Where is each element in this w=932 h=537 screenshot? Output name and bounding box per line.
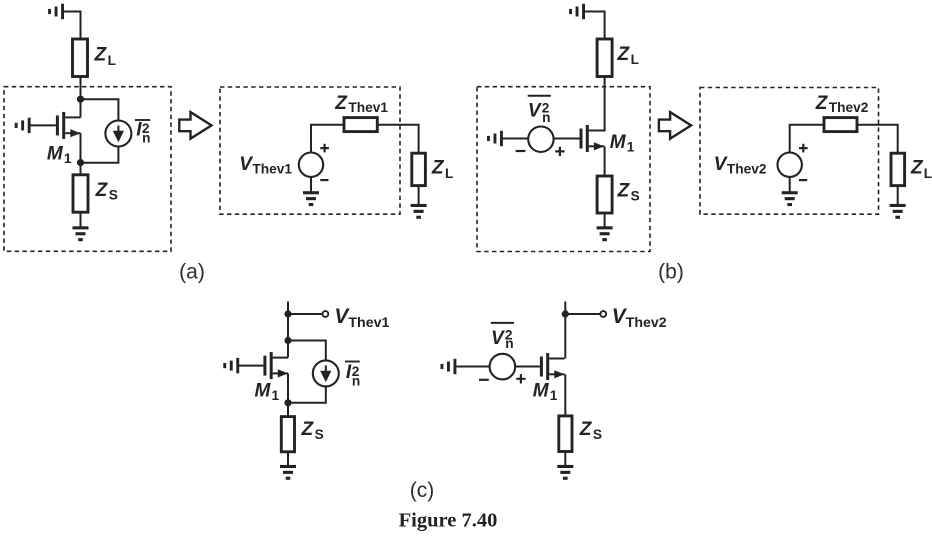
label In2 (a) — [135, 119, 150, 121]
supply symbol (b) — [569, 4, 585, 19]
svg-text:Z: Z — [579, 419, 593, 440]
wire ZL to drain — [80, 77, 82, 118]
ac ground at gate (a) — [15, 118, 31, 133]
wire source top to ZThev1 — [311, 125, 344, 153]
ground VThev2 — [782, 191, 798, 206]
wire supply to ZL (b) — [585, 12, 605, 40]
svg-text:M: M — [47, 143, 64, 164]
svg-text:S: S — [315, 427, 324, 442]
wire supply to ZL — [64, 12, 81, 40]
wire ZL to ground thev2 — [897, 186, 899, 205]
node output (c2) — [562, 310, 569, 317]
wire drain stub down (c1) — [287, 302, 289, 358]
wire acgnd to noise source (c2) — [456, 366, 490, 368]
plus sign VThev1 — [320, 144, 329, 153]
minus sign (c2) — [479, 379, 489, 381]
wire ZS to ground (b) — [604, 213, 606, 227]
label In2 (c1) — [345, 361, 360, 363]
wire gate (a) — [30, 124, 56, 126]
dashed box thev2 — [700, 88, 879, 215]
node noise tap (c1) — [284, 337, 291, 344]
wire ZThev2 to ZL — [857, 125, 898, 154]
wire node to noise source (c1) — [288, 341, 326, 362]
ground ZL thev2 — [890, 204, 906, 219]
svg-text:n: n — [352, 373, 360, 388]
impedance ZL thev1 — [412, 153, 426, 185]
impedance ZThev1 — [344, 118, 377, 132]
wire noise source to gate (c2) — [515, 366, 540, 368]
svg-text:S: S — [593, 427, 602, 442]
svg-text:V: V — [528, 101, 542, 122]
svg-text:V: V — [239, 154, 253, 175]
svg-text:1: 1 — [550, 388, 558, 403]
svg-text:n: n — [542, 110, 550, 125]
supply symbol (a) — [48, 4, 64, 19]
svg-text:Thev1: Thev1 — [348, 315, 389, 331]
ground (b) — [597, 226, 613, 241]
label Vn2 (c2) — [491, 322, 514, 324]
svg-text:M: M — [610, 132, 627, 153]
svg-text:V: V — [491, 328, 505, 349]
impedance ZThev2 — [824, 118, 857, 132]
wire source to node (a) — [80, 133, 82, 175]
svg-text:Z: Z — [815, 93, 829, 114]
svg-text:Thev2: Thev2 — [626, 315, 667, 331]
wire source down to ZS (b) — [604, 146, 606, 176]
ac ground at gate (b) — [487, 131, 503, 146]
svg-text:Z: Z — [301, 419, 315, 440]
svg-text:V: V — [714, 154, 728, 175]
minus sign (b) — [516, 150, 526, 152]
voltage source VThev1 — [299, 153, 323, 177]
ground ZL thev1 — [411, 204, 427, 219]
svg-text:Z: Z — [334, 93, 348, 114]
wire source top to ZThev2 — [790, 125, 824, 153]
node source (c1) — [284, 399, 291, 406]
dashed box thev1 — [220, 87, 400, 214]
impedance ZS (c2) — [559, 416, 572, 452]
open terminal (c2) — [600, 311, 606, 317]
svg-text:1: 1 — [272, 388, 280, 403]
impedance ZS (c1) — [281, 417, 294, 452]
svg-text:(a): (a) — [179, 261, 205, 284]
minus sign VThev2 — [799, 179, 807, 181]
svg-text:Z: Z — [431, 158, 445, 179]
transistor M1 (c1) — [263, 352, 288, 379]
svg-text:S: S — [631, 188, 640, 203]
transistor M1 (b) — [580, 125, 605, 152]
label Vn2 (b) — [528, 95, 551, 97]
node drain (a) — [77, 96, 84, 103]
svg-text:Z: Z — [617, 44, 631, 65]
wire ZS to ground — [80, 212, 82, 226]
minus sign VThev1 — [320, 179, 328, 181]
impedance ZS (b) — [597, 176, 612, 213]
svg-text:L: L — [924, 166, 932, 181]
svg-text:Thev2: Thev2 — [727, 162, 767, 177]
dashed box (a) — [4, 87, 171, 252]
wire ZL to drain (b) — [604, 77, 606, 132]
svg-text:1: 1 — [627, 139, 635, 154]
svg-text:Thev1: Thev1 — [348, 100, 388, 115]
svg-text:n: n — [142, 131, 150, 146]
svg-text:Z: Z — [617, 180, 631, 201]
wire VThev2 to ground — [789, 177, 791, 192]
svg-text:Z: Z — [94, 45, 108, 66]
plus sign VThev2 — [799, 144, 808, 153]
wire drain up (c2) — [564, 302, 566, 359]
wire noise source to source node — [81, 146, 119, 163]
wire source down (c2) — [564, 374, 566, 416]
ground VThev1 — [303, 191, 319, 206]
noise current source In2 (a) — [105, 121, 131, 147]
node output (c1) — [284, 310, 291, 317]
wire ZThev1 to ZL — [377, 125, 418, 154]
svg-text:L: L — [445, 166, 453, 181]
wire noise source to source node (c1) — [288, 386, 326, 403]
svg-text:Thev2: Thev2 — [829, 100, 869, 115]
ground (c1) — [280, 465, 296, 480]
noise current source In2 (c1) — [313, 360, 339, 386]
svg-text:Z: Z — [910, 158, 924, 179]
impedance ZL (b) — [597, 39, 612, 77]
wire source down (c1) — [287, 373, 289, 416]
block arrow 1 — [179, 112, 211, 139]
impedance ZL thev2 — [891, 153, 905, 185]
ground (a) — [73, 226, 89, 241]
wire gate (c1) — [239, 365, 263, 367]
wire ZL to ground thev1 — [418, 186, 420, 205]
wire to output terminal (c2) — [565, 313, 600, 315]
plus sign (c2) — [516, 374, 525, 383]
impedance ZL (a) — [73, 39, 88, 77]
ac ground at gate (c2) — [441, 359, 457, 374]
impedance ZS (a) — [73, 175, 88, 212]
svg-text:L: L — [631, 52, 639, 67]
open terminal (c1) — [323, 311, 329, 317]
wire to output terminal (c1) — [288, 313, 323, 315]
voltage source VThev2 — [778, 153, 802, 177]
plus sign (b) — [555, 147, 564, 156]
svg-text:Z: Z — [95, 180, 109, 201]
ac ground at gate (c1) — [223, 358, 239, 373]
transistor M1 (c2) — [540, 353, 565, 380]
svg-text:L: L — [108, 53, 116, 68]
noise voltage source Vn2 (b) — [528, 127, 553, 152]
svg-text:Figure 7.40: Figure 7.40 — [399, 510, 498, 532]
wire drain node to noise source — [81, 99, 119, 121]
svg-text:n: n — [505, 336, 513, 351]
svg-text:S: S — [109, 188, 118, 203]
svg-text:1: 1 — [64, 151, 72, 166]
node source (a) — [77, 159, 84, 166]
dashed box (b) — [477, 87, 650, 252]
ground (c2) — [557, 465, 573, 480]
svg-text:(b): (b) — [658, 261, 684, 284]
wire ZS to ground (c2) — [564, 452, 566, 466]
wire VThev1 to ground — [310, 177, 312, 192]
wire acgnd to noise source (b) — [503, 138, 529, 140]
svg-text:(c): (c) — [410, 479, 435, 502]
wire noise source to gate (b) — [553, 138, 579, 140]
noise voltage source Vn2 (c2) — [490, 354, 516, 380]
svg-text:M: M — [533, 380, 550, 401]
block arrow 2 — [659, 112, 691, 139]
svg-text:Thev1: Thev1 — [252, 162, 292, 177]
wire ZS to ground (c1) — [287, 452, 289, 465]
transistor M1 (a) — [56, 112, 81, 139]
svg-text:M: M — [255, 380, 272, 401]
